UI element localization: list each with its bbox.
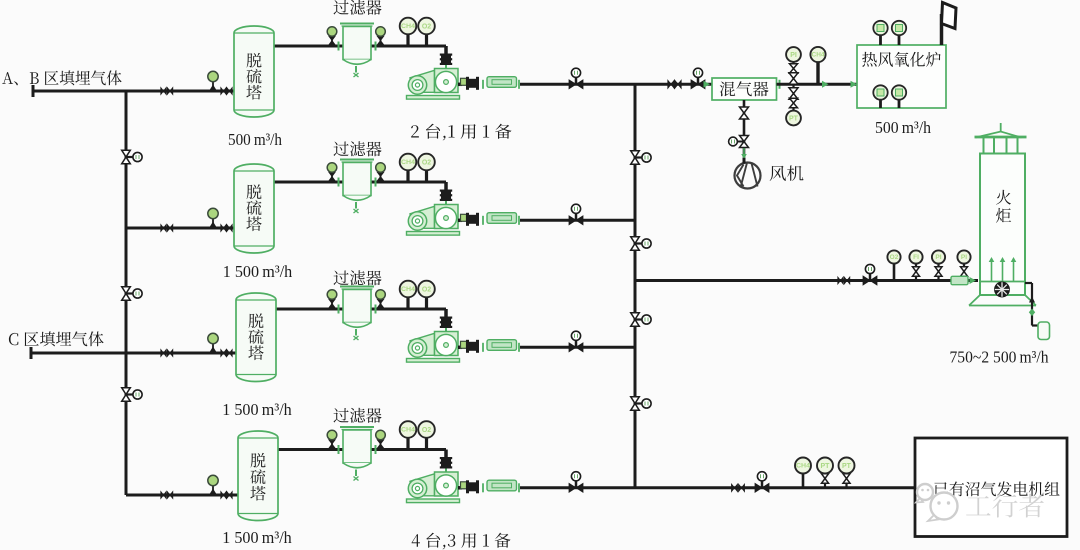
svg-text:CH4: CH4 — [401, 23, 415, 30]
svg-text:500 m³/h: 500 m³/h — [228, 130, 282, 149]
svg-text:PI: PI — [790, 52, 797, 59]
svg-text:FI: FI — [913, 254, 919, 261]
svg-text:O2: O2 — [422, 159, 431, 166]
svg-text:CH4: CH4 — [401, 427, 415, 434]
svg-text:O2: O2 — [422, 286, 431, 293]
svg-text:PT: PT — [789, 115, 799, 122]
svg-text:PI: PI — [961, 254, 967, 261]
svg-text:O2: O2 — [422, 23, 431, 30]
svg-text:500 m³/h: 500 m³/h — [875, 118, 931, 137]
svg-text:CH4: CH4 — [401, 286, 415, 293]
svg-text:CH4: CH4 — [401, 159, 415, 166]
svg-text:PT: PT — [842, 463, 852, 470]
svg-text:O2: O2 — [890, 254, 899, 261]
svg-text:1 500 m³/h: 1 500 m³/h — [222, 528, 292, 547]
svg-text:PI: PI — [935, 254, 941, 261]
svg-text:750~2 500 m³/h: 750~2 500 m³/h — [950, 348, 1049, 367]
svg-text:PT: PT — [821, 463, 831, 470]
svg-text:1 500 m³/h: 1 500 m³/h — [222, 400, 292, 419]
svg-text:1 500 m³/h: 1 500 m³/h — [223, 262, 293, 281]
svg-text:CH4: CH4 — [812, 52, 826, 59]
svg-text:CH4: CH4 — [796, 463, 811, 470]
svg-text:O2: O2 — [422, 427, 431, 434]
